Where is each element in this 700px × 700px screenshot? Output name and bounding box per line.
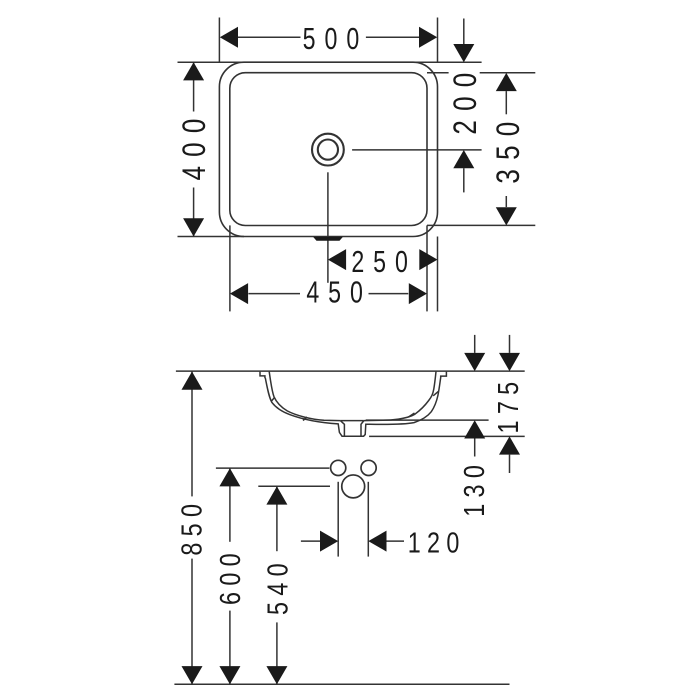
svg-text:600: 600 (214, 547, 247, 605)
svg-text:350: 350 (490, 113, 526, 184)
svg-text:400: 400 (176, 110, 212, 181)
svg-text:120: 120 (408, 526, 466, 559)
svg-text:500: 500 (303, 21, 369, 56)
svg-text:450: 450 (306, 275, 372, 310)
svg-text:130: 130 (458, 459, 491, 517)
svg-text:175: 175 (492, 376, 525, 434)
svg-text:540: 540 (261, 557, 294, 615)
svg-text:850: 850 (175, 498, 208, 556)
svg-text:200: 200 (447, 64, 483, 135)
